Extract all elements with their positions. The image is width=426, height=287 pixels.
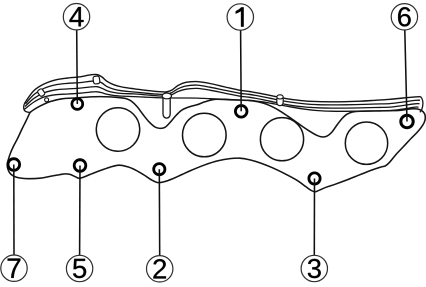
stud tab 1 dome [162, 93, 171, 99]
band line 1 [26, 74, 421, 101]
wire leader 4 [76, 30, 79, 104]
wire leader 3 [313, 179, 315, 256]
manifold body silhouette [7, 97, 425, 192]
small dot on band [45, 98, 49, 102]
wire leader 5 [79, 166, 81, 256]
port circle D [345, 122, 387, 164]
callout balloon 3 [301, 255, 327, 281]
slit window on band (left, tilted) [37, 88, 46, 97]
band line 2 [26, 81, 421, 105]
bolt hole 5 [74, 160, 86, 172]
bolt hole 1 [235, 106, 247, 118]
port circle B [183, 113, 227, 157]
stud tab 2 [277, 98, 283, 105]
stud tab 2 dome [277, 95, 283, 99]
bolt hole 3 [309, 173, 320, 184]
bolt hole 4 [72, 99, 83, 110]
callout balloon 5 [66, 255, 92, 281]
band line 4 [25, 92, 419, 112]
port circle A [96, 108, 139, 151]
bolt hole 7 [8, 159, 20, 171]
callout balloon 6 [391, 4, 417, 30]
band right end cut [420, 97, 423, 113]
band line 3 [25, 87, 420, 109]
wire leader 2 [158, 169, 160, 255]
stud tab 1 [163, 99, 170, 119]
slit window on band (second) [93, 76, 100, 84]
bolt hole 6 [401, 115, 413, 127]
band left end cap [24, 101, 30, 113]
callout balloon 1 [227, 4, 253, 30]
callout balloon 4 [63, 4, 89, 30]
wire leader 7 [13, 165, 15, 256]
callout balloon 2 [147, 256, 173, 282]
bolt hole 2 [154, 164, 165, 175]
wire leader 6 [405, 30, 407, 122]
wire leader 1 [240, 30, 243, 111]
port circle C [260, 118, 303, 161]
callout balloon 7 [1, 255, 27, 281]
